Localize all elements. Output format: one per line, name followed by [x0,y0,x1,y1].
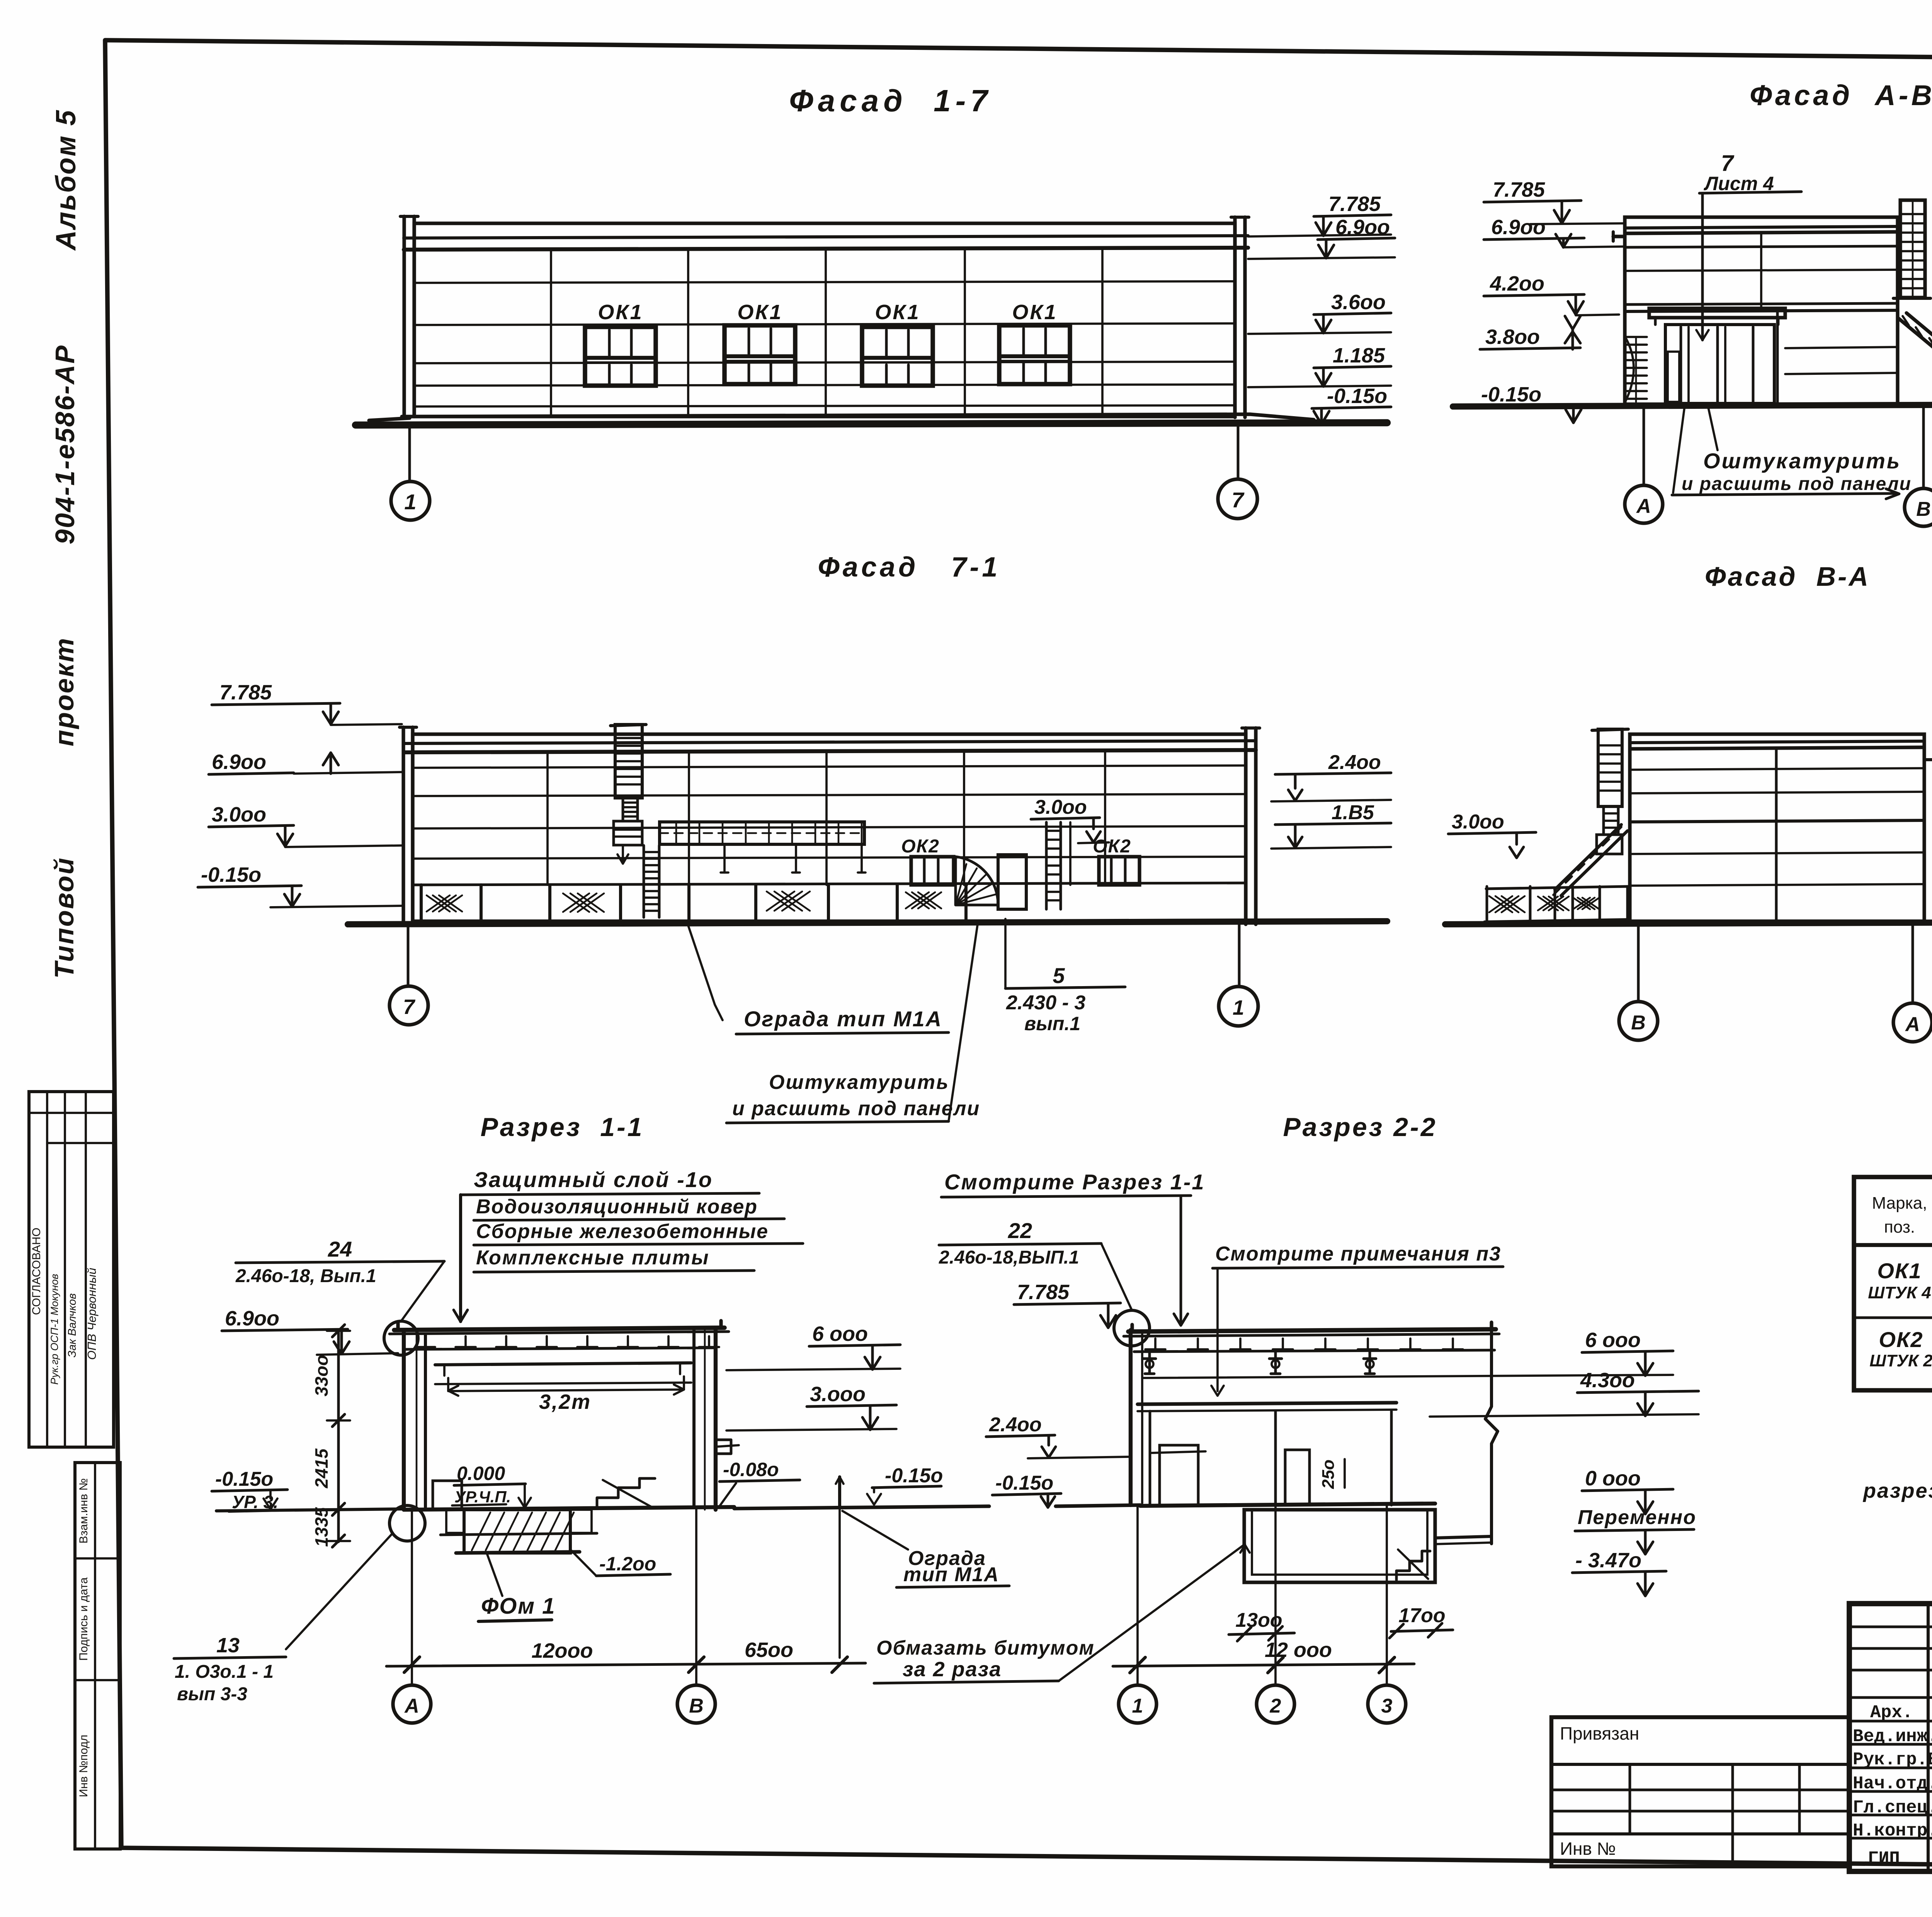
mezzanine columns [1149,1411,1151,1505]
svg-text:поз.: поз. [1884,1218,1915,1237]
svg-text:Подпись и дата: Подпись и дата [77,1577,90,1661]
svg-text:6.9оо: 6.9оо [212,750,266,774]
svg-text:3.0оо: 3.0оо [1034,796,1087,818]
facade 1-7 right column axis 7 [1233,217,1236,417]
svg-text:6.9оо: 6.9оо [1491,216,1546,239]
svg-text:Обмазать битумом: Обмазать битумом [876,1637,1095,1659]
interior door left [433,1481,462,1509]
svg-text:33оо: 33оо [311,1355,332,1396]
leader to 13 detail [286,1533,393,1649]
basement box [1244,1510,1435,1582]
svg-text:6.9оо: 6.9оо [225,1307,279,1330]
svg-text:-0.15о: -0.15о [1481,383,1541,406]
svg-text:Инв №: Инв № [1560,1839,1616,1859]
svg-text:тип М1А: тип М1А [903,1563,999,1586]
roof callout leader arrow [459,1195,462,1322]
left ground line [216,1509,404,1511]
facade A-B door canopy [1649,308,1785,318]
svg-text:12ооо: 12ооо [531,1639,593,1662]
svg-text:и расшить под панели: и расшить под панели [1682,474,1912,494]
svg-text:Сборные железобетонные: Сборные железобетонные [476,1220,769,1243]
svg-text:Защитный слой -1о: Защитный слой -1о [474,1167,713,1192]
facade A-B building outline [1625,217,1898,404]
svg-text:0 ооо: 0 ооо [1585,1467,1641,1490]
svg-text:2.430 - 3: 2.430 - 3 [1006,992,1085,1014]
svg-text:5: 5 [1053,963,1065,988]
stack lower ladder [622,798,624,821]
facade B-A stair [1561,831,1628,896]
svg-text:7.785: 7.785 [1017,1281,1070,1304]
steps right [597,1478,655,1508]
svg-text:ОК2: ОК2 [1093,836,1131,857]
svg-text:Смотрите примечания п3: Смотрите примечания п3 [1215,1243,1501,1265]
svg-text:3.8оо: 3.8оо [1485,325,1540,349]
foundation underpit [446,1510,464,1533]
facade A-B brick pier hatch [1625,336,1647,338]
window OK1 #1 [585,327,656,386]
svg-text:2: 2 [1270,1695,1281,1717]
svg-text:вып 3-3: вып 3-3 [177,1684,247,1704]
foundation pit hatched [464,1510,570,1553]
svg-text:ГИП: ГИП [1868,1849,1900,1869]
facade 7-1 fence posts and panels [420,885,423,923]
title block signature rows [1849,1720,1932,1723]
svg-text:В: В [689,1695,704,1717]
svg-text:6 ооо: 6 ооо [1585,1328,1641,1352]
svg-text:17оо: 17оо [1398,1604,1445,1627]
svg-text:ОК2: ОК2 [1879,1327,1923,1352]
section 1-1 floor line [404,1507,734,1510]
svg-text:-0.08о: -0.08о [723,1459,779,1480]
svg-text:СОГЛАСОВАНО: СОГЛАСОВАНО [30,1228,43,1315]
section 2-2 roof slab [1128,1329,1496,1332]
svg-text:3.6оо: 3.6оо [1331,291,1386,314]
svg-text:и расшить под панели: и расшить под панели [732,1097,980,1120]
svg-text:Зак Валчков: Зак Валчков [66,1293,78,1357]
svg-text:Рук.гр.Бескоровайный: Рук.гр.Бескоровайный [1853,1750,1932,1770]
svg-text:ОК1: ОК1 [1012,301,1057,324]
svg-text:Разрез 1-1: Разрез 1-1 [481,1112,644,1142]
detail circle floor left [389,1505,425,1541]
facade 7-1 building outline [413,734,1246,921]
axis leaders section 2-2 [1136,1506,1139,1685]
right wall bracket [716,1440,731,1454]
svg-text:ОПВ Червонный: ОПВ Червонный [85,1268,99,1360]
facade B-A exhaust stack [1598,729,1622,806]
svg-text:Рук.гр ОСП-1 Мокунов: Рук.гр ОСП-1 Мокунов [49,1274,60,1385]
axis bubble 1 facade 7-1 [1238,923,1241,987]
svg-text:1.В5: 1.В5 [1332,801,1374,824]
ground line right [734,1506,989,1509]
dim line 12000/6500 [411,1511,413,1685]
facade A-B exhaust stack [1900,200,1925,298]
svg-text:Водоизоляционный ковер: Водоизоляционный ковер [476,1196,758,1218]
privyazan table [1551,1717,1849,1866]
svg-text:1.185: 1.185 [1333,344,1385,367]
svg-text:22: 22 [1008,1218,1032,1243]
facade 1-7 left column axis 1 [402,216,406,417]
svg-text:7: 7 [1231,488,1245,512]
window OK1 #4 [999,325,1070,384]
svg-text:7.785: 7.785 [1493,178,1545,201]
svg-text:Фасад В-А: Фасад В-А [1705,561,1870,592]
svg-text:Вед.инж.Горская: Вед.инж.Горская [1853,1726,1932,1747]
svg-text:Оштукатурить: Оштукатурить [1703,449,1901,473]
facade 7-1 plinth rail [413,883,1246,885]
mezzanine slab 4.300 [1138,1403,1396,1404]
svg-text:Фасад 7-1: Фасад 7-1 [818,552,1001,583]
title block signature columns [1927,1604,1930,1871]
svg-text:Типовой: Типовой [49,857,79,978]
facade 1-7 panel lines [414,281,1235,283]
facade 1-7 base slab [402,414,1314,420]
svg-text:7: 7 [403,995,416,1019]
door facade 7-1 [998,855,1026,909]
svg-text:Нач.отд.Саакьян: Нач.отд.Саакьян [1853,1774,1932,1794]
svg-text:3.0оо: 3.0оо [212,803,266,826]
facade B-A building outline [1630,734,1924,921]
svg-text:ШТУК 2: ШТУК 2 [1869,1351,1932,1370]
svg-text:1. О3о.1 - 1: 1. О3о.1 - 1 [175,1662,274,1682]
facade 1-7 panel joints [550,250,552,417]
facade 1-7 parapet band [404,236,1248,238]
facade A-B door opening [1665,325,1774,403]
leader lines to A-B note [1673,406,1685,493]
facade 7-1 panel joints [546,752,549,885]
section 2-2 roof T plates [1145,1339,1165,1349]
svg-text:Лист 4: Лист 4 [1704,173,1774,194]
svg-text:24: 24 [328,1237,352,1261]
axis bubble A facade B-A [1912,922,1914,1003]
svg-text:65оо: 65оо [745,1638,793,1662]
svg-text:2.4оо: 2.4оо [1328,751,1381,774]
svg-text:вып.1: вып.1 [1024,1013,1080,1034]
svg-text:ОК1: ОК1 [737,301,782,324]
facade B-A panel lines [1630,768,1924,770]
facade B-A fence [1486,886,1628,889]
svg-text:25о: 25о [1319,1459,1338,1489]
svg-text:за 2 раза: за 2 раза [903,1658,1002,1681]
roof T-plates [415,1336,435,1347]
door middle [1285,1450,1310,1505]
svg-text:7: 7 [1721,151,1735,176]
svg-text:-0.15о: -0.15о [995,1472,1053,1494]
svg-text:ОК2: ОК2 [901,836,940,857]
arched brick opening [956,857,998,905]
facade B-A right hook [1924,758,1932,761]
roof posts [1143,1352,1156,1374]
section 1-1 right wall [692,1328,696,1507]
svg-text:6.9оо: 6.9оо [1335,216,1390,239]
facade B-A ground line [1445,922,1932,924]
facade 7-1 left column [401,727,405,924]
approval table (soglasovano) [29,1092,114,1447]
left dim chain section 1-1 [337,1330,340,1542]
svg-text:2415: 2415 [311,1448,332,1488]
svg-text:Взам.инв №: Взам.инв № [77,1478,90,1543]
svg-text:2.4оо: 2.4оо [989,1414,1042,1436]
svg-text:Гл.спец.Кияшко: Гл.спец.Кияшко [1853,1798,1932,1818]
svg-text:Инв №подл: Инв №подл [77,1735,90,1797]
svg-text:1: 1 [1132,1695,1143,1717]
specification table frame [1854,1177,1932,1390]
svg-text:0.000: 0.000 [457,1463,505,1484]
fence label leader 7-1 [688,924,723,1020]
window OK1 #2 [724,325,795,384]
crane rail inside [435,1363,691,1365]
facade 7-1 panel lines [413,765,1246,768]
svg-text:ОК1: ОК1 [875,301,920,324]
svg-text:ШТУК 4: ШТУК 4 [1868,1283,1931,1302]
axis bubble B facade A-B [1922,405,1925,488]
leader line 5/2.430-3 [1005,987,1125,988]
monorail hangers [723,844,726,873]
svg-text:Фасад 1-7: Фасад 1-7 [789,83,992,118]
axis bubble 1 facade 1-7 [408,425,411,481]
section 1-1 roof slab [394,1328,724,1330]
facade A-B ground line [1453,404,1932,407]
svg-text:2.46о-18, Вып.1: 2.46о-18, Вып.1 [235,1266,376,1286]
svg-text:Оштукатурить: Оштукатурить [769,1071,949,1094]
facade 7-1 parapet band [404,741,1256,743]
access ladder to ground [643,845,645,917]
facade B-A parapet band [1630,741,1924,743]
svg-text:В: В [1631,1012,1646,1034]
basement right wing [1435,1536,1491,1538]
svg-text:Разрез 2-2: Разрез 2-2 [1283,1112,1437,1142]
svg-text:7.785: 7.785 [219,681,272,704]
title block outer frame [1849,1604,1932,1871]
window OK1 #3 [862,327,933,386]
fence label section 1-1 [842,1511,908,1550]
axis bubble B facade B-A [1637,923,1640,1002]
axis bubble 2 section 2-2 [1257,1685,1294,1723]
equipment left [1160,1445,1198,1505]
svg-text:ОК1: ОК1 [1877,1259,1922,1283]
svg-text:7.785: 7.785 [1328,192,1381,216]
svg-text:13: 13 [216,1634,240,1657]
facade A-B left hook [1613,235,1625,238]
svg-text:УР.Ч.П.: УР.Ч.П. [454,1488,511,1506]
svg-text:-0.15о: -0.15о [215,1468,273,1490]
svg-text:4.3оо: 4.3оо [1580,1369,1635,1392]
fence post right of section [838,1477,841,1508]
svg-text:Ограда тип М1А: Ограда тип М1А [744,1007,942,1031]
svg-text:1: 1 [404,490,416,514]
detail circle at eaves [384,1321,418,1355]
svg-text:-0.15о: -0.15о [201,863,261,886]
svg-text:- 3.47о: - 3.47о [1575,1549,1641,1572]
axis bubble 1 section 2-2 [1119,1685,1156,1723]
svg-text:3,2т: 3,2т [539,1390,591,1414]
svg-text:А: А [404,1695,419,1717]
section 1-1 left wall [402,1330,406,1510]
svg-text:1: 1 [1233,996,1244,1019]
svg-text:Смотрите Разрез 1-1: Смотрите Разрез 1-1 [944,1170,1205,1194]
svg-text:разрезе 1-1. приведен на ли: разрезе 1-1. приведен на листе 6 . [1862,1479,1932,1502]
svg-text:А: А [1636,495,1651,517]
ladder right facade 7-1 [1045,822,1048,909]
svg-text:3.ооо: 3.ооо [810,1383,866,1406]
svg-text:ОК1: ОК1 [598,301,643,324]
svg-text:Альбом 5: Альбом 5 [51,109,82,251]
axis bubble B section 1-1 [677,1685,715,1723]
svg-text:2.46о-18,ВЫП.1: 2.46о-18,ВЫП.1 [939,1247,1079,1268]
facade 7-1 exhaust stack with cage [615,725,642,798]
axis bubble A section 1-1 [393,1685,431,1723]
ground floor line 2-2 [1056,1505,1140,1506]
svg-text:6 ооо: 6 ооо [812,1322,868,1345]
svg-text:Переменно: Переменно [1578,1506,1696,1529]
facade B-A mid joint [1775,749,1778,921]
svg-text:-0.15о: -0.15о [1327,384,1387,408]
inventory side table [75,1463,120,1849]
svg-text:А: А [1905,1013,1920,1036]
svg-text:ФОм 1: ФОм 1 [481,1594,555,1619]
svg-text:3.0оо: 3.0оо [1452,811,1504,833]
axis bubble 7 facade 1-7 [1237,424,1240,479]
facade 1-7 building outline [414,223,1235,417]
svg-text:Фасад А-В: Фасад А-В [1750,79,1932,111]
svg-text:904-1-е586-АР: 904-1-е586-АР [50,344,80,544]
svg-text:-0.15о: -0.15о [885,1465,943,1487]
svg-text:Марка,: Марка, [1872,1194,1927,1213]
facade 7-1 right column [1244,728,1247,924]
monorail beam [660,822,864,844]
axis bubble 7 facade 7-1 [407,925,410,986]
svg-text:Привязан: Привязан [1560,1723,1639,1744]
svg-text:4.2оо: 4.2оо [1490,272,1544,295]
detail circle section 2-2 [1114,1310,1150,1346]
facade A-B panel lines [1625,246,1898,247]
svg-text:В: В [1916,498,1931,520]
svg-text:Арх.: Арх. [1870,1703,1913,1723]
svg-text:проект: проект [49,637,79,747]
svg-text:Комплексные плиты: Комплексные плиты [476,1247,710,1269]
svg-text:Н.контр.Толоченко: Н.контр.Толоченко [1853,1821,1932,1841]
axis bubble 3 section 2-2 [1368,1685,1406,1723]
section 2-2 broken right edge [1485,1329,1498,1544]
basement stair [1396,1551,1430,1580]
axis bubble A facade A-B [1643,405,1645,485]
facade A-B stair down right [1898,318,1932,388]
title block blank top rows [1849,1626,1932,1628]
facade A-B mid joint [1760,233,1762,309]
svg-text:-1.2оо: -1.2оо [599,1553,656,1575]
facade 7-1 ground line [348,921,1387,924]
facade A-B parapet band [1625,226,1898,228]
facade 1-7 ground line [355,423,1387,425]
section 2-2 left wall [1129,1330,1133,1505]
svg-text:3: 3 [1381,1695,1393,1717]
